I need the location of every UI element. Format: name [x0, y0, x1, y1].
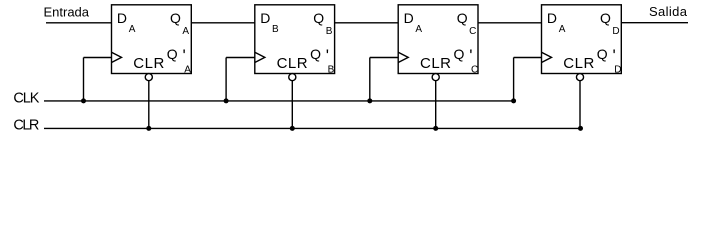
svg-text:CLR: CLR — [13, 118, 39, 134]
svg-text:CLK: CLK — [13, 91, 39, 107]
svg-text:C: C — [471, 65, 478, 76]
svg-text:D: D — [404, 10, 414, 26]
svg-text:D: D — [547, 10, 557, 26]
svg-text:B: B — [326, 26, 333, 37]
svg-text:Entrada: Entrada — [44, 5, 90, 20]
svg-text:': ' — [613, 46, 616, 65]
svg-text:D: D — [117, 10, 127, 26]
svg-text:CLR: CLR — [133, 55, 164, 72]
svg-text:Q: Q — [600, 10, 611, 26]
svg-text:Q: Q — [597, 46, 608, 62]
svg-text:A: A — [184, 65, 191, 76]
svg-text:Q: Q — [170, 10, 181, 26]
svg-text:B: B — [272, 24, 279, 35]
svg-text:A: A — [129, 24, 136, 35]
svg-text:': ' — [469, 46, 472, 65]
svg-text:B: B — [328, 65, 335, 76]
svg-text:Q: Q — [313, 10, 324, 26]
svg-text:Q: Q — [457, 10, 468, 26]
svg-text:C: C — [469, 26, 476, 37]
svg-text:D: D — [260, 10, 270, 26]
svg-text:Q: Q — [310, 46, 321, 62]
svg-text:A: A — [415, 24, 422, 35]
svg-text:CLR: CLR — [420, 55, 451, 72]
svg-text:CLR: CLR — [563, 55, 594, 72]
svg-text:Q: Q — [454, 46, 465, 62]
svg-text:': ' — [183, 46, 186, 65]
svg-text:D: D — [614, 65, 621, 76]
svg-text:': ' — [326, 46, 329, 65]
svg-text:Q: Q — [167, 46, 178, 62]
svg-text:CLR: CLR — [277, 55, 308, 72]
svg-text:A: A — [559, 24, 566, 35]
svg-text:A: A — [182, 26, 189, 37]
svg-text:D: D — [612, 26, 619, 37]
svg-text:Salida: Salida — [649, 4, 688, 19]
